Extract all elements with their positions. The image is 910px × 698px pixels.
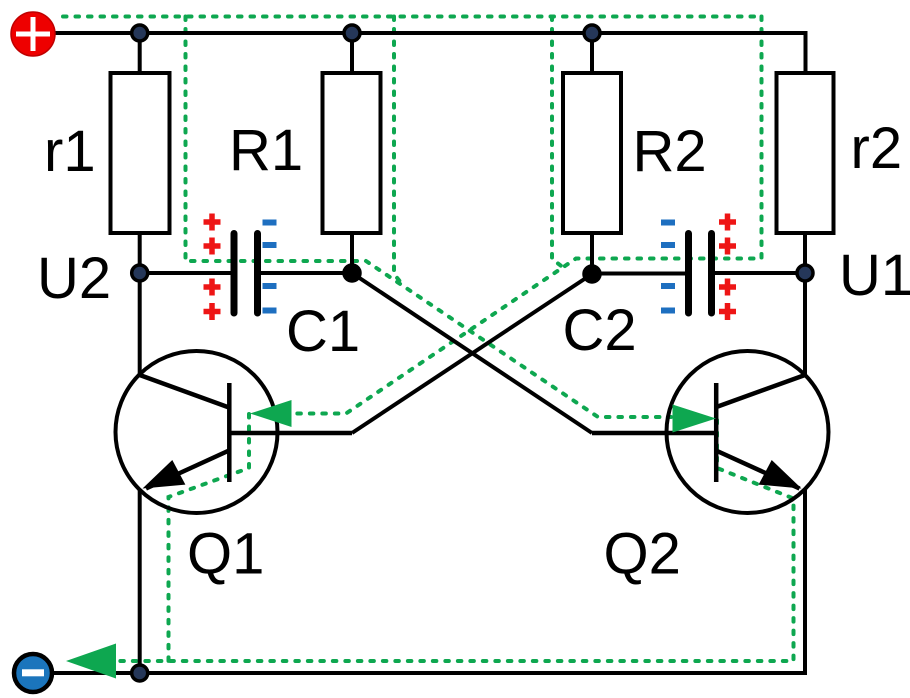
current path: Q2 emitter to bottom rail and return (113, 420, 794, 661)
green arrow into Q2 base (673, 405, 717, 433)
svg-text:C2: C2 (563, 298, 637, 363)
supply positive terminal (11, 12, 55, 56)
current path: via C2 to Q1 base (293, 17, 762, 414)
node U2 (132, 265, 148, 281)
wire U1 node down to Q2 collector (803, 273, 807, 375)
wire Q2 emitter down and bottom rail (52, 489, 805, 673)
resistor r1 (111, 73, 170, 233)
wire U2 node down to Q1 collector (138, 273, 142, 375)
wire R2 bottom stub (590, 233, 594, 274)
svg-text:C1: C1 (286, 299, 360, 364)
node R1/C1 (344, 265, 360, 281)
current path: via C1 to Q2 base (186, 17, 672, 418)
node R2/C2 (584, 266, 600, 282)
green arrow to negative terminal (66, 644, 116, 679)
C1 plus charge marks (204, 214, 221, 321)
capacitor C2 (689, 234, 712, 314)
current path: top rail (63, 15, 762, 19)
transistor Q1 (116, 351, 353, 513)
svg-text:Q2: Q2 (604, 522, 681, 587)
node top r1 (132, 25, 148, 41)
svg-text:R2: R2 (633, 119, 707, 184)
supply negative terminal (14, 654, 52, 692)
wire cross-couple R2 node to Q1 base (352, 274, 592, 433)
resistor r2 (777, 73, 834, 233)
svg-text:Q1: Q1 (187, 522, 264, 587)
wire cross-couple R1 node to Q2 base (352, 273, 592, 433)
resistor R2 (563, 73, 621, 233)
green arrow into Q1 base (250, 400, 292, 427)
svg-text:r1: r1 (44, 119, 96, 184)
wire Q1 emitter down to bottom rail (138, 489, 142, 673)
node top R2 (584, 25, 600, 41)
wire C1 to R1 node (261, 271, 352, 275)
wire r1 bottom stub (138, 233, 142, 273)
wire r1 top stub (138, 33, 142, 73)
svg-text:U1: U1 (839, 243, 910, 308)
node bottom rail (132, 665, 148, 681)
svg-text:R1: R1 (229, 118, 303, 183)
svg-text:U2: U2 (37, 246, 111, 311)
wire R2 node to C2 (592, 272, 685, 276)
C2 minus charge marks (661, 223, 675, 311)
node top R1 (344, 25, 360, 41)
current path: branch through R2 (552, 17, 565, 269)
capacitor C1 (234, 234, 258, 314)
wire R2 top stub (590, 33, 594, 73)
wire r2 bottom stub (803, 233, 807, 273)
C2 plus charge marks (719, 214, 736, 321)
transistor Q2 (592, 351, 829, 513)
wire U2 node to C1 (140, 271, 231, 275)
wire R1 bottom stub (350, 233, 354, 273)
resistor R1 (323, 73, 381, 233)
wire top rail (53, 33, 806, 73)
current path: Q1 emitter to bottom rail (169, 414, 250, 661)
node U1 (797, 265, 813, 281)
wire C2 to U1 node (715, 271, 805, 275)
current path: branch through R1 (394, 17, 404, 287)
C1 minus charge marks (263, 223, 277, 311)
svg-text:r2: r2 (851, 116, 903, 181)
wire R1 top stub (350, 33, 354, 73)
